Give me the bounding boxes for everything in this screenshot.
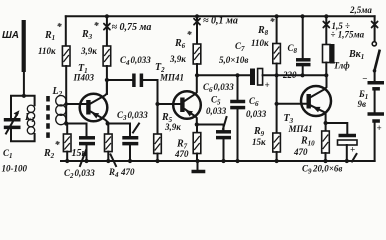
node bias [64,121,68,125]
wire R1 bottom to bias node [65,66,67,124]
break mark x T2 [194,19,200,25]
svg-text:Тлф: Тлф [334,61,351,71]
svg-text:МП41: МП41 [288,124,313,134]
phones Тлф [325,16,327,44]
svg-text:0,033: 0,033 [246,109,267,119]
node rail bottom R10 [323,159,327,163]
wire C4 to T2 base column [143,80,157,134]
node collector T1 [105,78,109,82]
node T3 base [275,102,279,106]
pointer R4 [111,155,117,167]
svg-text:10-100: 10-100 [2,164,28,174]
wire T2 collector to C7 [197,74,250,76]
svg-text:9в: 9в [358,99,367,109]
wire R8 node to T3 base node [276,75,278,104]
wire antenna to tank [23,72,25,96]
node rail bottom R5 [155,159,159,163]
resistor R1 [62,46,70,66]
node rail bottom R2 [65,159,69,163]
svg-text:15к: 15к [72,148,88,159]
wire tank loop [11,96,35,142]
pointer C2 [80,150,86,166]
svg-text:15к: 15к [252,137,266,147]
capacitor C3 [129,124,131,137]
svg-text:П403: П403 [73,73,95,83]
node antenna/tank [22,94,26,98]
wire battery to bottom rail [374,123,376,161]
svg-text:220: 220 [282,70,297,80]
break mark x battery [372,22,378,28]
resistor R7 [196,125,198,133]
svg-text:МП41: МП41 [159,73,184,83]
wire R3 column from rail [106,16,108,46]
resistor R9 [276,104,278,133]
wire right column (battery/switch branch) [374,16,376,41]
transistor T1 [80,94,108,122]
wire top rail [66,15,375,17]
break mark x T1 [104,24,110,30]
inductor L1 [27,105,34,112]
wire R8 column from rail [276,16,278,43]
wire bottom rail [61,160,375,162]
svg-text:3,9к: 3,9к [80,46,97,56]
svg-text:110к: 110к [251,38,269,48]
capacitor C1 (variable) [4,118,21,122]
svg-text:÷ 1,75ма: ÷ 1,75ма [331,30,365,40]
svg-text:+: + [265,80,270,90]
svg-text:−: − [362,74,367,84]
wire left column from rail through R1 down [65,16,67,46]
wire base lead T3 [277,103,307,105]
node top R8 [275,14,279,18]
wire emitter node to C3 [108,123,130,125]
node rail bottom C6 [235,159,239,163]
wire base lead T2 [158,103,180,105]
node T3 emitter [324,121,328,125]
wire base lead T1 [66,103,86,105]
transistor T3 [301,86,331,116]
node top R3 [105,14,109,18]
capacitor C4 [132,74,136,88]
inductor L2 [56,96,66,106]
resistor R10 [325,123,327,131]
transistor T2 [173,91,201,119]
svg-text:2,5ма: 2,5ма [349,5,372,15]
node T1 emitter [106,121,110,125]
capacitor C6 [237,75,239,99]
resistor R4 [107,124,109,135]
resistor R5 [154,134,162,154]
svg-text:470: 470 [174,149,189,159]
node R8 bottom [275,73,279,77]
svg-text:5,0×10в: 5,0×10в [219,55,248,65]
wire collector node to C4 [107,79,132,81]
node L2/base [64,102,68,106]
battery B1 cell2 [368,112,385,116]
capacitor C8 [302,16,304,58]
node rail bottom C9 [345,159,349,163]
break mark x phones [323,22,329,28]
pointer C9 [352,154,357,162]
node rail bottom R9 [275,159,279,163]
capacitor C2 [86,124,88,137]
node collector T2 [195,73,199,77]
resistor R8 [273,44,281,64]
pointer C5 [223,117,227,129]
svg-text:ША: ША [2,30,19,41]
wire R6 column from rail [196,16,198,44]
node rail bottom C2 [84,159,88,163]
node T2 base [155,102,159,106]
wire bias node to C2 [66,123,86,125]
resistor R2 [66,124,68,135]
resistor R6 [193,44,201,64]
pointer C3 [133,124,139,133]
svg-text:0,033: 0,033 [206,106,227,116]
node rail bottom R7/ground [195,159,199,163]
ferrite core (dashed) [46,96,50,138]
node T2 emitter [195,122,199,126]
svg-text:110к: 110к [38,46,56,56]
node rail bottom R4 [106,159,110,163]
svg-text:3,9к: 3,9к [164,122,181,132]
capacitor C7 (electrolytic) [250,69,255,86]
node rail bottom C3 [128,159,132,163]
wire switch to battery [374,71,376,82]
svg-text:+: + [377,123,382,133]
wire R6 bottom to collector node T2 [196,64,198,75]
resistor R3 [103,46,111,66]
node top R6 [195,14,199,18]
capacitor C9 (electrolytic) [326,123,348,133]
battery B1 cell1 [368,81,385,85]
svg-text:470: 470 [293,147,308,157]
ground [197,161,199,170]
wire between cells [374,91,376,112]
wire R3 bottom to collector node [106,66,108,94]
svg-text:+: + [350,145,355,155]
node C6 [235,73,239,77]
arrow of C1 [6,114,18,134]
svg-text:≈ 0,1 ма: ≈ 0,1 ма [203,16,238,27]
antenna ША [22,20,26,72]
capacitor C5 [197,125,224,131]
svg-text:3,9к: 3,9к [169,54,186,64]
svg-text:≈ 0,75 ма: ≈ 0,75 ма [112,22,152,33]
node rail bottom C5 [221,159,225,163]
switch Вк1 [372,42,376,46]
